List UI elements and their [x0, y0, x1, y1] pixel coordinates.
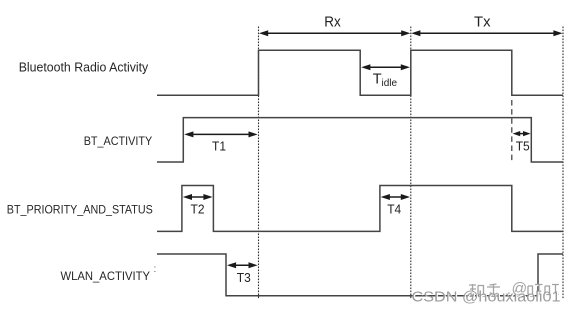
dimension T4 arrow [381, 194, 410, 200]
dimension Tx span arrow [411, 30, 562, 36]
node t2: dotted guide line at Tx end [562, 27, 564, 300]
waveform WLAN_ACTIVITY [157, 254, 563, 296]
svg-text:idle: idle [382, 78, 398, 89]
node t0: dotted guide line at Rx start [258, 27, 260, 300]
glyph zhi [469, 284, 484, 295]
svg-text:BT_ACTIVITY: BT_ACTIVITY [84, 134, 153, 148]
svg-text:Tx: Tx [474, 14, 491, 31]
svg-text:T: T [373, 72, 382, 88]
dimension T1 arrow [184, 131, 258, 137]
svg-text:T1: T1 [212, 139, 226, 154]
glyph hu [487, 284, 500, 295]
watermark zhihu @dingdong (CJK glyphs drawn as vector strokes) [470, 285, 501, 296]
svg-text:CSDN @houxiaoli01: CSDN @houxiaoli01 [412, 290, 561, 306]
svg-text:T3: T3 [237, 270, 251, 285]
waveform BT_ACTIVITY [157, 118, 563, 162]
dimension T3 arrow [227, 262, 258, 268]
svg-text:T5: T5 [516, 138, 530, 153]
dimension Tidle arrow [361, 64, 410, 70]
glyph dong [545, 285, 559, 295]
waveform Bluetooth Radio Activity [157, 50, 563, 95]
glyph ding [528, 285, 543, 296]
svg-text:T4: T4 [387, 201, 401, 216]
node t3: dashed guide line at radio fall (T5 reference) [511, 100, 513, 162]
svg-text:Bluetooth Radio Activity: Bluetooth Radio Activity [19, 60, 149, 75]
svg-text:BT_PRIORITY_AND_STATUS: BT_PRIORITY_AND_STATUS [7, 203, 153, 217]
dimension T2 arrow [183, 194, 213, 200]
waveform BT_PRIORITY_AND_STATUS [157, 186, 563, 232]
svg-text:WLAN_ACTIVITY: WLAN_ACTIVITY [61, 269, 151, 283]
svg-text::: : [154, 264, 157, 275]
dimension Rx span arrow [259, 30, 410, 36]
svg-text:T2: T2 [191, 201, 205, 216]
node t1: dotted guide line at Rx/Tx boundary [410, 27, 412, 300]
dimension T5 arrow [513, 131, 531, 136]
svg-text:Rx: Rx [324, 14, 341, 31]
